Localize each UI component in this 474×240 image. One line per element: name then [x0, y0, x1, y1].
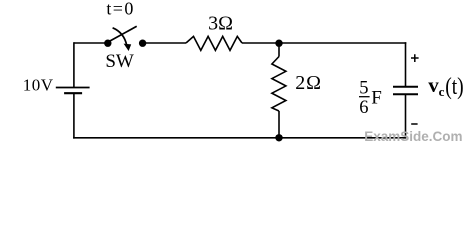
svg-text:F: F	[371, 87, 382, 108]
resistor R1 3ohm zigzag	[186, 36, 242, 50]
switch SW arrowhead	[124, 44, 132, 51]
capacitor C1 bottom plate	[393, 93, 418, 95]
bottom wire	[73, 137, 405, 139]
wire right branch upper: top-right corner to capacitor	[405, 42, 407, 86]
bottom junction dot	[275, 134, 282, 141]
svg-text:3Ω: 3Ω	[208, 13, 233, 35]
wire left branch upper: top-left corner down to battery	[73, 42, 75, 87]
svg-text:2Ω: 2Ω	[295, 72, 322, 94]
svg-text:t=0: t=0	[106, 0, 134, 18]
switch SW blade (open)	[109, 26, 137, 41]
svg-text:ExamSide.Com: ExamSide.Com	[364, 129, 462, 144]
svg-text:(t): (t)	[445, 74, 464, 100]
svg-text:5: 5	[359, 78, 368, 98]
wire top-left: from left branch corner to switch left terminal	[74, 42, 108, 44]
wire switch right terminal to resistor R1	[143, 42, 186, 44]
node A junction dot (top)	[275, 40, 282, 47]
wire middle branch upper: node A down to resistor R2	[278, 43, 280, 57]
battery V1 long plate (+)	[56, 87, 90, 89]
switch SW closing-arc arrow	[113, 28, 127, 46]
wire right branch lower: capacitor to bottom-right corner	[405, 94, 407, 138]
svg-text:10V: 10V	[23, 75, 54, 94]
capacitor C1 top plate	[393, 86, 418, 88]
wire middle branch lower: resistor R2 to bottom node	[278, 111, 280, 138]
fraction bar of 5/6	[359, 96, 370, 98]
svg-text:6: 6	[359, 98, 368, 118]
switch SW left terminal dot	[104, 40, 111, 47]
wire R1 to node A and to top-right corner	[242, 42, 406, 44]
wire left branch lower: battery down to bottom-left corner	[73, 93, 75, 138]
svg-text:SW: SW	[105, 51, 134, 72]
plus sign of capacitor polarity	[411, 54, 419, 62]
minus sign of capacitor polarity	[411, 123, 417, 125]
resistor R2 2ohm vertical zigzag	[272, 57, 286, 112]
battery V1 short plate (-)	[64, 92, 82, 94]
switch SW right terminal dot	[139, 40, 146, 47]
svg-text:v: v	[428, 73, 439, 97]
svg-text:c: c	[439, 84, 445, 99]
